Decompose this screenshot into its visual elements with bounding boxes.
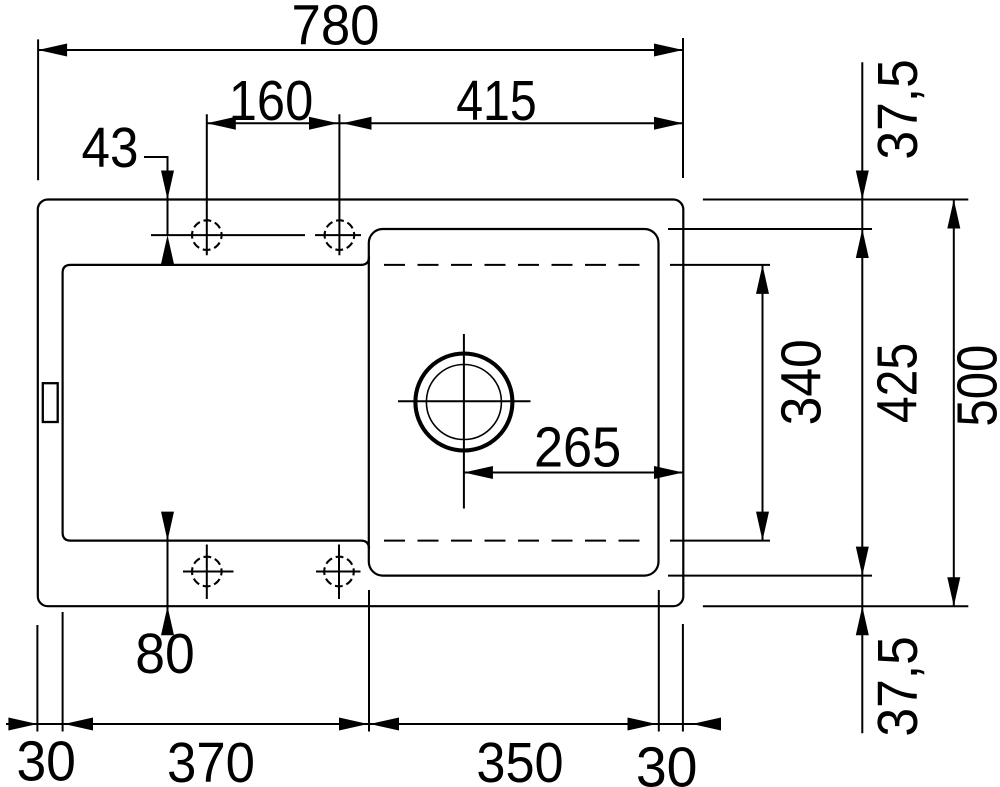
tap hole bottom-left centerline horizontal xyxy=(183,571,234,573)
arrow 415 left xyxy=(343,117,372,130)
drain outer circle xyxy=(415,354,512,451)
dim 43 leader horizontal xyxy=(144,156,169,158)
arrow 350 left xyxy=(370,718,399,731)
arrow 780 right xyxy=(654,44,683,57)
svg-text:37,5: 37,5 xyxy=(866,636,929,737)
arrow 340 top xyxy=(756,265,769,294)
bottom ext drainboard left xyxy=(62,612,64,732)
arrow 160 right xyxy=(309,117,338,130)
ext waterline top right xyxy=(670,264,770,266)
tap hole bottom-left centerline vertical xyxy=(206,545,208,600)
arrow 425 bottom xyxy=(856,547,869,576)
dim 340 line xyxy=(762,265,764,541)
arrow 30L/370 shared xyxy=(64,718,93,731)
arrow 30L outer xyxy=(8,718,37,731)
dim 780 line xyxy=(38,49,683,51)
arrow 265 left xyxy=(464,466,493,479)
arrow 340 bottom xyxy=(756,512,769,541)
bottom ext bowl left xyxy=(368,590,370,732)
dim 265 line xyxy=(464,472,683,474)
svg-text:30: 30 xyxy=(16,730,76,787)
bottom ext sink left xyxy=(36,625,38,732)
arrow 30R outer xyxy=(692,718,721,731)
tap hole bottom-left dashed circle xyxy=(192,557,222,587)
arrow 415 right xyxy=(654,117,683,130)
svg-text:340: 340 xyxy=(770,339,833,425)
sink outer outline xyxy=(38,200,684,607)
tap hole top-left dashed circle xyxy=(192,220,222,250)
svg-text:160: 160 xyxy=(229,69,314,132)
svg-text:425: 425 xyxy=(866,343,929,423)
svg-text:265: 265 xyxy=(534,416,621,479)
svg-text:780: 780 xyxy=(292,0,380,57)
arrow 43 bottom xyxy=(161,235,174,264)
arrow 265 right xyxy=(654,466,683,479)
drain crosshair vertical xyxy=(463,334,465,509)
svg-text:500: 500 xyxy=(946,345,1000,427)
tap holes top centerline horizontal segment 1 xyxy=(151,234,305,236)
arrow 780 left xyxy=(38,44,67,57)
bottom ext bowl right xyxy=(658,590,660,732)
svg-text:80: 80 xyxy=(135,622,195,685)
arrow 37,5 top xyxy=(856,171,869,200)
ext sink top right xyxy=(703,199,968,201)
dim 780 extension line left xyxy=(37,39,39,180)
arrow 370 right xyxy=(339,718,368,731)
ext bowl top right xyxy=(668,228,872,230)
arrow 350/30R shared xyxy=(628,718,657,731)
dim 43 leader vertical xyxy=(167,157,169,236)
drain crosshair horizontal xyxy=(398,400,531,402)
tap hole top-left centerline vertical xyxy=(206,114,208,255)
dim 80 line xyxy=(167,513,169,633)
bottom ext sink right xyxy=(682,624,684,732)
bottom dim line xyxy=(6,723,719,725)
tap hole bottom-right centerline vertical xyxy=(338,545,340,600)
arrow 43 top xyxy=(161,171,174,200)
arrow 425 top xyxy=(856,229,869,258)
drainboard outline xyxy=(63,257,369,549)
bowl inner dashed waterline top xyxy=(384,264,648,266)
svg-text:350: 350 xyxy=(476,731,563,787)
ext bowl bottom right xyxy=(668,575,872,577)
svg-text:415: 415 xyxy=(456,69,537,132)
arrow 37,5 bottom xyxy=(856,606,869,635)
ext waterline bottom right xyxy=(670,540,770,542)
arrow 500 top xyxy=(947,200,960,229)
tap hole bottom-right centerline horizontal xyxy=(316,571,361,573)
arrow 80 bottom xyxy=(161,606,174,635)
svg-text:43: 43 xyxy=(82,116,139,179)
arrow 80 top xyxy=(161,512,174,541)
bowl outline xyxy=(369,229,659,576)
dim 160/415 line xyxy=(207,122,683,124)
arrow 500 bottom xyxy=(947,577,960,606)
overflow slot xyxy=(43,383,58,422)
arrow 160 left xyxy=(207,117,236,130)
svg-text:370: 370 xyxy=(167,731,255,787)
dim 37,5/425/37,5 line xyxy=(861,62,863,733)
tap hole top-right dashed circle xyxy=(325,220,355,250)
ext sink bottom right xyxy=(703,605,968,607)
drain inner circle xyxy=(426,365,501,440)
dim 500 line xyxy=(953,200,955,607)
svg-text:37,5: 37,5 xyxy=(866,59,929,159)
tap hole bottom-right dashed circle xyxy=(324,557,354,587)
svg-text:30: 30 xyxy=(636,736,698,787)
tap hole top-right centerline vertical xyxy=(338,114,340,255)
tap holes top centerline horizontal segment 2 xyxy=(315,234,361,236)
dim 780/415 extension line right xyxy=(682,38,684,178)
bowl inner dashed waterline bottom xyxy=(384,540,648,542)
